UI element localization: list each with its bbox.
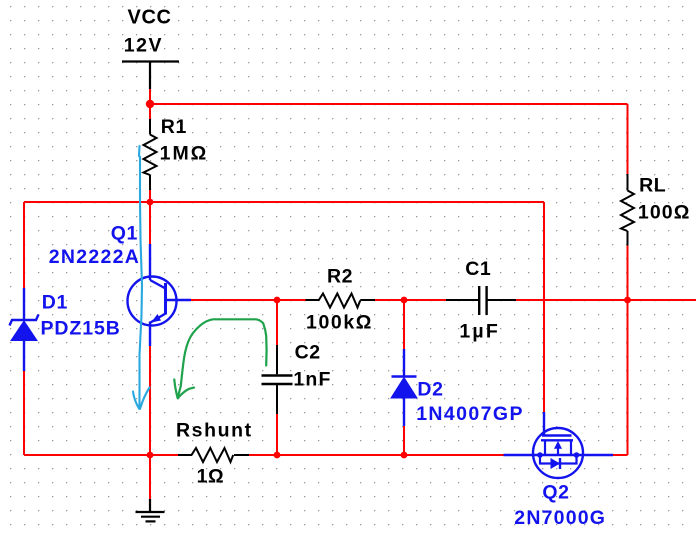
wire inner box top edge [24,201,544,203]
wire C2 column lower [276,414,278,455]
svg-text:Q1: Q1 [111,222,138,244]
power VCC symbol [122,62,179,90]
svg-text:Rshunt: Rshunt [176,420,253,442]
svg-text:VCC: VCC [128,6,172,28]
resistor R1 [144,119,157,190]
wire inner box left edge upper (to D1) [23,202,25,288]
svg-text:C1: C1 [465,258,491,280]
svg-text:2N2222A: 2N2222A [49,246,141,268]
wire right column up [627,300,629,455]
capacitor C2 [262,345,293,414]
junction middle rail at D2 [401,297,408,304]
wire C2 column upper [276,300,278,345]
resistor Rshunt [178,448,249,462]
svg-text:1nF: 1nF [293,369,331,391]
wire bottom rail left [24,454,178,456]
svg-text:12V: 12V [124,35,163,57]
wire D2 column upper [403,300,405,349]
mosfet Q2 [504,428,614,478]
junction bottom rail at emitter [147,452,154,459]
svg-text:100kΩ: 100kΩ [306,312,373,334]
resistor R2 [306,294,376,308]
junction box top at collector column [147,199,154,206]
zener diode D1 [10,288,39,371]
ground [136,499,165,521]
diode D2 [391,349,417,426]
svg-text:D1: D1 [42,292,68,314]
annotation cyan arrow [133,146,150,409]
svg-text:D2: D2 [417,379,443,401]
svg-text:RL: RL [639,175,666,197]
wire Q2 gate blue lead [543,412,545,436]
wire collector column red [149,202,151,244]
junction middle rail at RL column [624,297,631,304]
annotation green arrow [174,319,266,398]
capacitor C1 [446,286,516,315]
wire middle rail right [516,299,696,301]
svg-text:1MΩ: 1MΩ [160,143,209,165]
svg-text:1N4007GP: 1N4007GP [416,403,524,425]
svg-text:PDZ15B: PDZ15B [41,318,121,340]
wire VCC to top rail [149,89,151,104]
wire Q2 source to right column [613,454,628,456]
wire base to middle rail [191,299,306,301]
wire bottom rail right [249,454,504,456]
svg-text:C2: C2 [295,342,321,364]
wire inner box left edge lower (from D1) [23,371,25,455]
wire top rail to R1 [149,104,151,119]
wire emitter column red [149,346,151,455]
junction bottom rail at C2 [274,452,281,459]
svg-text:1Ω: 1Ω [197,466,225,488]
wire top rail horizontal [150,103,628,105]
svg-text:1µF: 1µF [459,321,500,343]
junction middle rail at C2 [274,297,281,304]
svg-text:Q2: Q2 [542,481,569,503]
junction bottom rail at D2 [401,452,408,459]
wire D2 column lower [403,426,405,455]
svg-text:R2: R2 [327,266,353,288]
transistor Q1 [128,244,192,346]
wire RL to junction [627,246,629,301]
wire top rail down to RL [627,104,629,174]
svg-text:2N7000G: 2N7000G [514,507,606,529]
wire to ground [149,455,151,499]
resistor RL [621,174,634,246]
wire R1 to box top [149,190,151,202]
wire inner box right edge (to Q2 gate) [543,202,545,412]
svg-text:R1: R1 [161,116,187,138]
wire R2 to C1 [375,299,446,301]
svg-text:100Ω: 100Ω [638,202,691,224]
junction top rail at R1 [146,100,154,108]
